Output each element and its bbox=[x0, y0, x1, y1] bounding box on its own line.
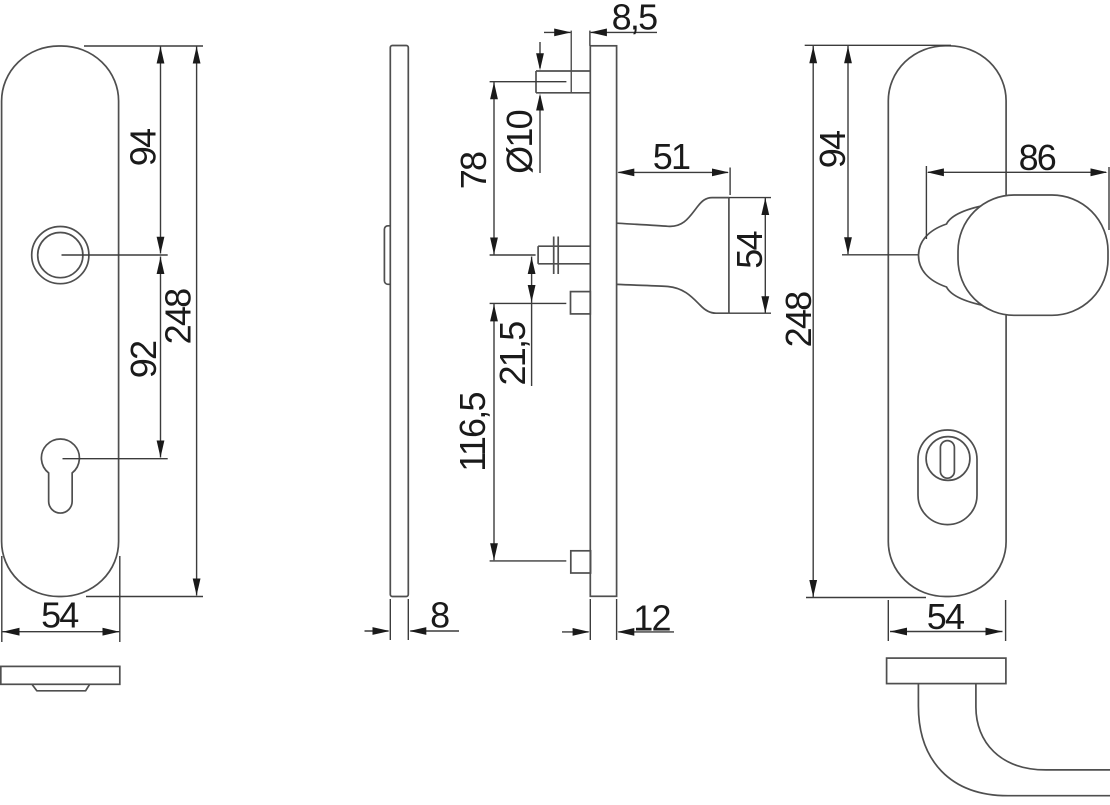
dimension 54 right line bbox=[890, 628, 1003, 636]
dimension 78 line bbox=[490, 82, 498, 255]
dimension 8.5 arrows bbox=[544, 29, 657, 37]
dimension 8 arrows bbox=[365, 627, 460, 635]
keyway slot bbox=[940, 441, 954, 479]
lever handle outer edge bbox=[918, 684, 1110, 796]
bottom pin center line bbox=[490, 560, 567, 562]
svg-text:94: 94 bbox=[122, 129, 163, 166]
dimension 54 knob line bbox=[761, 198, 769, 313]
bottom pin square bbox=[571, 551, 591, 573]
label 116,5 bbox=[452, 393, 493, 472]
label 21,5 bbox=[492, 322, 533, 386]
handle screw shaft bbox=[538, 246, 589, 264]
left view bottom extension line bbox=[86, 596, 203, 598]
dimension 116.5 line bbox=[490, 304, 498, 560]
handle hole inner circle bbox=[38, 233, 83, 278]
security rosette oval bbox=[918, 430, 977, 525]
handle hole outer circle bbox=[32, 227, 89, 284]
handle screw center line bbox=[490, 254, 536, 256]
label 92 bbox=[123, 341, 164, 378]
svg-text:12: 12 bbox=[633, 598, 670, 639]
knob neck front view bbox=[919, 204, 992, 307]
label 78 bbox=[453, 152, 494, 189]
left plate outline bbox=[2, 46, 119, 597]
svg-text:78: 78 bbox=[453, 152, 494, 189]
54 left extension line bbox=[1, 556, 3, 642]
label 54 left view bbox=[41, 595, 78, 636]
label 51 bbox=[653, 136, 690, 177]
cylinder fixing square bbox=[571, 292, 591, 314]
8.5 extension line bbox=[589, 31, 591, 46]
handle plate top view bbox=[887, 658, 1006, 684]
dimension 94 line bbox=[157, 46, 165, 254]
outer plate side view bbox=[590, 46, 616, 597]
svg-text:51: 51 bbox=[653, 136, 690, 177]
svg-text:54: 54 bbox=[729, 232, 770, 269]
right view bottom extension line bbox=[806, 597, 926, 599]
knob 54 extension lines bbox=[729, 198, 771, 314]
dimension 21.5 line bbox=[528, 257, 536, 387]
86 right extension line bbox=[1108, 167, 1110, 230]
label 86 bbox=[1019, 137, 1056, 178]
svg-text:248: 248 bbox=[158, 289, 199, 344]
label 8,5 bbox=[612, 0, 657, 38]
dimension 248 right line bbox=[809, 46, 817, 597]
cylinder top extension line bbox=[490, 302, 567, 304]
svg-text:86: 86 bbox=[1019, 137, 1056, 178]
dimension 54 line bbox=[3, 628, 120, 636]
svg-text:Ø10: Ø10 bbox=[499, 110, 540, 173]
label 54 right bbox=[927, 596, 964, 637]
dimension 51 arrows bbox=[617, 169, 729, 177]
dimension 248 line bbox=[193, 46, 201, 596]
knob end cap bbox=[728, 198, 730, 314]
svg-text:116,5: 116,5 bbox=[452, 393, 493, 472]
outer plate outline bbox=[888, 46, 1006, 597]
handle hole center line bbox=[62, 254, 168, 256]
dimension 12 arrows bbox=[562, 628, 674, 636]
svg-text:248: 248 bbox=[778, 292, 819, 347]
label 12 bbox=[633, 598, 670, 639]
keyhole center line bbox=[63, 458, 168, 460]
label 94 right bbox=[812, 131, 853, 168]
label 8 bbox=[430, 595, 449, 636]
knob profile lower contour bbox=[617, 284, 729, 313]
cylinder circle bbox=[926, 437, 970, 481]
right view top extension line bbox=[805, 44, 951, 46]
svg-text:92: 92 bbox=[123, 341, 164, 378]
dimension 86 arrows bbox=[927, 168, 1108, 176]
top bolt shaft bbox=[536, 71, 590, 93]
svg-text:8: 8 bbox=[430, 595, 449, 636]
dimension 92 line bbox=[157, 257, 165, 458]
51 extension line bbox=[729, 168, 731, 196]
washer lines bbox=[554, 237, 559, 275]
label 248 left bbox=[158, 289, 199, 344]
12 dim extension lines bbox=[590, 599, 616, 640]
54 right extension line bbox=[119, 556, 121, 642]
top bolt step line bbox=[570, 31, 572, 93]
diameter 10 arrows bbox=[536, 42, 544, 173]
86 left extension line bbox=[925, 166, 927, 239]
left plate top view bar bbox=[1, 666, 120, 684]
svg-text:21,5: 21,5 bbox=[492, 322, 533, 386]
svg-text:94: 94 bbox=[812, 131, 853, 168]
top bolt center line bbox=[490, 81, 567, 83]
svg-text:8,5: 8,5 bbox=[612, 0, 657, 38]
lever handle inner edge bbox=[976, 684, 1110, 770]
label 94 bbox=[122, 129, 163, 166]
svg-text:54: 54 bbox=[41, 595, 78, 636]
side bump bbox=[384, 226, 390, 285]
dimension 94 right line bbox=[844, 46, 852, 255]
8 dim extension lines bbox=[390, 599, 408, 640]
left view top extension line bbox=[84, 45, 203, 47]
label diameter 10 bbox=[499, 110, 540, 173]
cylinder bump top view bbox=[32, 685, 89, 691]
54 right extension lines bbox=[888, 600, 1005, 641]
thin plate side view bbox=[390, 46, 408, 597]
svg-text:54: 54 bbox=[927, 596, 964, 637]
profile cylinder keyhole bbox=[41, 439, 79, 513]
knob front view bbox=[958, 195, 1108, 315]
label 54 knob bbox=[729, 232, 770, 269]
knob profile upper contour bbox=[617, 198, 729, 227]
94 extension line right bbox=[842, 254, 918, 256]
label 248 right bbox=[778, 292, 819, 347]
